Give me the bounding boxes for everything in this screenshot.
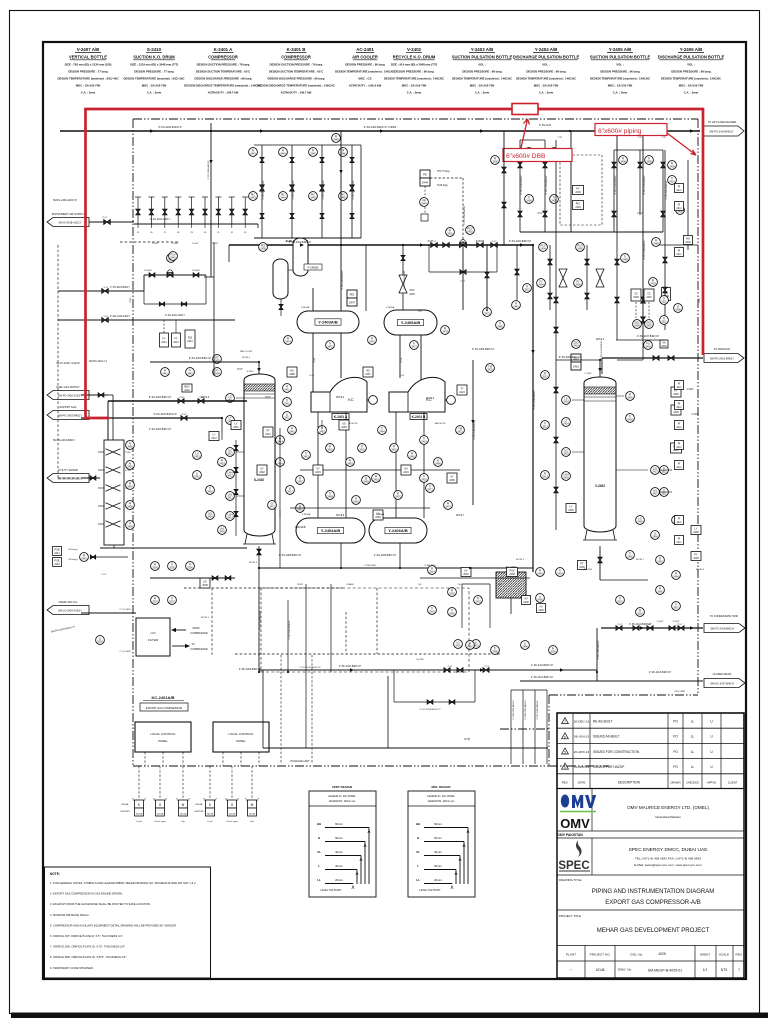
svg-text:2"-DC-2413-B4D1Y-P: 2"-DC-2413-B4D1Y-P (649, 672, 672, 674)
svg-text:PE: PE (423, 173, 427, 177)
svg-text:VENT: VENT (297, 584, 303, 586)
instrument box UY-2485 (447, 473, 457, 483)
svg-text:DESIGN TEMPERATURE (max/min) :: DESIGN TEMPERATURE (max/min) : 149C/0C (516, 77, 576, 81)
svg-text:7. ORIFICE 2ND: ORIFICE PLAT: 7. ORIFICE 2ND: ORIFICE PLATE ID. 4.75",… (50, 945, 126, 949)
svg-text:2478: 2478 (442, 331, 448, 334)
svg-text:2515: 2515 (429, 611, 435, 614)
svg-text:TYP: TYP (662, 137, 667, 139)
svg-text:(TYP): (TYP) (464, 738, 470, 741)
station branch 4 (351, 145, 353, 238)
revision row 6 (557, 742, 744, 744)
svg-text:SIZE : 1219 mm (ID) x 3048 mm: SIZE : 1219 mm (ID) x 3048 mm (T/T) (130, 63, 178, 67)
svg-text:DESIGN SUCTION TEMPERATURE : 6: DESIGN SUCTION TEMPERATURE : 60 C (196, 70, 250, 74)
risers to drain (258, 568, 260, 672)
svg-text:PO: PO (673, 735, 678, 739)
svg-text:2"-FG-2414-A1D1Y: 2"-FG-2414-A1D1Y (150, 218, 170, 221)
svg-text:LL: LL (691, 750, 695, 754)
svg-text:M: M (182, 803, 185, 807)
svg-text:2465: 2465 (409, 456, 415, 459)
instrument TI-2468 (326, 491, 335, 500)
V-2401 lower valve cluster (193, 451, 202, 460)
svg-text:UTILITY WATER: UTILITY WATER (58, 468, 78, 472)
instrument GI-2472 (268, 501, 277, 510)
svg-text:2"-DC-2411-B4D1Y-P: 2"-DC-2411-B4D1Y-P (531, 665, 553, 667)
connector EXPORT GAS (47, 411, 89, 420)
svg-text:2407: 2407 (646, 296, 652, 299)
svg-text:2412: 2412 (227, 475, 233, 478)
svg-text:L: L (417, 864, 419, 868)
svg-text:2429: 2429 (650, 283, 656, 286)
svg-text:MEHAR GAS DEVELOPMENT PROJECT: MEHAR GAS DEVELOPMENT PROJECT (597, 928, 710, 934)
svg-text:VOL :: VOL : (542, 63, 549, 67)
svg-text:20-APR-13: 20-APR-13 (574, 750, 590, 754)
svg-text:2490: 2490 (637, 521, 643, 524)
svg-text:2445: 2445 (310, 153, 316, 156)
svg-text:9. TEMPORARY CONE STRAINER.: 9. TEMPORARY CONE STRAINER. (50, 966, 94, 970)
instrument box right margin y=425 (675, 421, 684, 430)
svg-text:2447: 2447 (349, 301, 356, 305)
instrument box PT-2414 (263, 427, 273, 437)
svg-text:2"-DC-2407-B4D1Y: 2"-DC-2407-B4D1Y (289, 620, 291, 640)
svg-text:2498: 2498 (492, 651, 498, 654)
OMV logo (561, 795, 569, 808)
svg-text:PO: PO (673, 720, 678, 724)
red highlight piping path (86, 109, 704, 418)
transmitter M-2401B (251, 766, 253, 800)
svg-text:2427: 2427 (652, 471, 658, 474)
svg-text:2404: 2404 (661, 345, 667, 348)
svg-text:SM-LO-2424-A1D1Y: SM-LO-2424-A1D1Y (58, 608, 82, 612)
svg-text:Islamabad-Pakistan: Islamabad-Pakistan (655, 815, 681, 819)
svg-text:2438: 2438 (523, 601, 529, 604)
title block frame (557, 713, 744, 978)
main export gas pipe (60, 130, 700, 132)
instrument PI-2491 (672, 516, 681, 525)
svg-text:NOTE 5: NOTE 5 (201, 617, 210, 619)
svg-text:2425: 2425 (563, 477, 569, 480)
instrument PI-2497 (466, 641, 475, 650)
svg-text:3"-PC-2412-B4D1Y: 3"-PC-2412-B4D1Y (598, 640, 600, 660)
svg-text:2469: 2469 (363, 481, 369, 484)
instrument PI-2432 (448, 588, 457, 597)
svg-text:2451: 2451 (233, 426, 239, 429)
svg-text:DESIGN SUCTION PRESSURE : 76 b: DESIGN SUCTION PRESSURE : 76 barg (197, 63, 250, 67)
svg-text:FRESH MO-OIL: FRESH MO-OIL (59, 600, 78, 604)
svg-text:6: 6 (564, 735, 566, 739)
svg-text:8"x6": 8"x6" (179, 397, 184, 399)
instrument PI-2500 (549, 646, 558, 655)
station branch 2 (291, 145, 293, 238)
ZC box pair (631, 289, 641, 301)
svg-text:DESIGN PRESSURE : 96 barg: DESIGN PRESSURE : 96 barg (345, 63, 385, 67)
svg-text:2426: 2426 (627, 419, 633, 422)
OMV company row (557, 830, 744, 832)
instrument TI-2419 (420, 474, 429, 483)
gate valve on cooler outlet x=636 (633, 626, 639, 631)
instrument box right margin y=206 (675, 202, 684, 211)
svg-text:2"-UW-2420-A1D1Y: 2"-UW-2420-A1D1Y (512, 700, 515, 720)
svg-text:6"-PG-2411-B4D1Y: 6"-PG-2411-B4D1Y (546, 175, 548, 195)
svg-text:2444: 2444 (280, 197, 286, 200)
revision row 4 (557, 773, 744, 775)
svg-text:4"-PG-2413-B4D1Y: 4"-PG-2413-B4D1Y (644, 175, 646, 195)
svg-text:2481: 2481 (513, 306, 519, 309)
svg-text:3. EXHAUST FROM THE GAS ENGI: 3. EXHAUST FROM THE GAS ENGINE SHALL BE … (50, 902, 151, 906)
svg-text:2"-UW-2421-A1D1Y: 2"-UW-2421-A1D1Y (524, 700, 527, 720)
svg-text:DESIGN DISCHARGE TEMPERATURE (: DESIGN DISCHARGE TEMPERATURE (max/min) :… (184, 84, 262, 88)
svg-text:CLIENT: CLIENT (728, 781, 738, 785)
dashed air header vertical (57, 245, 59, 478)
svg-text:MOL DESIGN: MOL DESIGN (432, 785, 451, 789)
instrument LG-2490 (636, 516, 645, 525)
svg-text:ISSUED AS-BUILT: ISSUED AS-BUILT (593, 735, 620, 739)
svg-text:SM-PG-2402-B4D1Y: SM-PG-2402-B4D1Y (58, 413, 82, 417)
svg-text:DESIGN TEMPERATURE (max/min) :: DESIGN TEMPERATURE (max/min) : 149C/0C (384, 77, 444, 81)
svg-text:24xx: 24xx (676, 406, 682, 409)
gate valve on cooler outlet x=650 (647, 626, 653, 631)
crank lines (259, 567, 533, 569)
svg-text:30mm: 30mm (335, 864, 343, 868)
svg-text:PDI: PDI (350, 293, 355, 297)
svg-text:2"-DR-2430: 2"-DR-2430 (364, 565, 376, 567)
svg-text:VOL :: VOL : (616, 63, 623, 67)
svg-text:2413: 2413 (227, 517, 233, 520)
svg-text:2464: 2464 (379, 431, 385, 434)
svg-text:24xx: 24xx (676, 189, 682, 192)
V-2402 instruments right (626, 392, 635, 401)
instrument box UX-2416 (401, 465, 411, 475)
svg-text:2407: 2407 (646, 325, 652, 328)
svg-text:SM-PG-2401-B4D1Y: SM-PG-2401-B4D1Y (710, 356, 734, 360)
svg-text:2415: 2415 (359, 449, 365, 452)
junction node (211,131) (210, 130, 212, 132)
svg-text:2401B: 2401B (229, 814, 236, 816)
instrument box right margin y=540 (675, 536, 684, 545)
svg-text:DESIGN DISCHARGE PRESSURE : 96: DESIGN DISCHARGE PRESSURE : 96 barg (195, 77, 252, 81)
svg-text:2405: 2405 (575, 284, 581, 287)
svg-text:TEL (+971-4) 438 0542 FAX: (: TEL (+971-4) 438 0542 FAX: (+971-4) 438 … (635, 857, 701, 861)
svg-text:2436: 2436 (657, 591, 663, 594)
svg-text:SM-FG-2420-A1D1Y: SM-FG-2420-A1D1Y (58, 393, 82, 397)
instrument box UA-2484 (373, 510, 383, 520)
svg-text:2411: 2411 (284, 403, 290, 406)
svg-text:1"x3/4": 1"x3/4" (192, 243, 199, 245)
svg-text:S-2410: S-2410 (147, 47, 162, 52)
manifold tap 2 (98, 469, 104, 471)
svg-text:2511: 2511 (661, 321, 667, 324)
instrument box US-2483 (339, 420, 349, 430)
svg-text:24xx: 24xx (676, 253, 682, 256)
svg-text:DRAIN: DRAIN (347, 583, 354, 586)
svg-text:LEVEL TAP POINT: LEVEL TAP POINT (320, 889, 342, 892)
recycle drum inlet leg (555, 360, 557, 530)
revision table (557, 713, 744, 789)
junction node (259,568) (258, 567, 260, 569)
svg-text:2446: 2446 (333, 139, 339, 142)
transmitter K-2401A (138, 766, 140, 800)
drain bypass loop (394, 701, 475, 703)
svg-text:MIN. FLOW: MIN. FLOW (240, 351, 252, 353)
svg-text:24xx: 24xx (676, 207, 682, 210)
svg-text:2"x1": 2"x1" (484, 666, 489, 668)
svg-text:2480: 2480 (497, 326, 503, 329)
svg-text:2416: 2416 (421, 441, 427, 444)
svg-text:2"x1": 2"x1" (101, 574, 106, 576)
bottom-left oil marker (96, 636, 105, 645)
svg-text:2482: 2482 (259, 471, 265, 474)
manifold valve 1 (137, 197, 139, 224)
svg-text:PO: PO (673, 750, 678, 754)
gate valve on suction header x=446 (443, 243, 449, 248)
instrument XI-2466 (434, 458, 443, 467)
instrument TI-2434 (556, 568, 565, 577)
instrument TI-2480 (496, 321, 505, 330)
svg-text:2441: 2441 (54, 552, 60, 555)
svg-text:DESIGN TEMPERATURE (max/min) :: DESIGN TEMPERATURE (max/min) : 93C/-46C (57, 77, 118, 81)
svg-text:V-2402: V-2402 (407, 47, 421, 52)
svg-text:2479: 2479 (484, 313, 490, 316)
svg-text:NOTE:: NOTE: (50, 872, 60, 876)
svg-text:2"x600#: 2"x600# (192, 270, 201, 272)
svg-text:DESIGN PRESSURE : 96 barg: DESIGN PRESSURE : 96 barg (394, 70, 434, 74)
svg-text:V-2407 A/B: V-2407 A/B (77, 47, 100, 52)
svg-text:Y-2406A/B: Y-2406A/B (388, 528, 408, 533)
svg-text:SM-PG-2431-B4D1Y: SM-PG-2431-B4D1Y (53, 439, 76, 442)
svg-text:2423: 2423 (459, 391, 465, 394)
svg-text:2484: 2484 (375, 516, 381, 519)
junction node (643,131) (642, 130, 644, 132)
svg-text:2453: 2453 (219, 463, 225, 466)
right side extra verticals (555, 140, 557, 360)
svg-text:2459: 2459 (127, 526, 133, 529)
svg-text:PANEL: PANEL (236, 739, 246, 743)
svg-text:LL: LL (317, 878, 321, 882)
svg-text:2440: 2440 (538, 609, 544, 612)
svg-text:PACKAGE UNIT: PACKAGE UNIT (290, 759, 310, 763)
svg-text:2"x1": 2"x1" (537, 213, 543, 215)
svg-text:PO: PO (673, 765, 678, 769)
svg-text:2401B: 2401B (249, 814, 256, 816)
svg-text:2426: 2426 (627, 397, 633, 400)
discharge control cluster (519, 140, 521, 232)
transmitter G-2401B (231, 766, 233, 800)
svg-text:2401A: 2401A (136, 813, 143, 816)
svg-text:SM-HC-2432-Y-1: SM-HC-2432-Y-1 (89, 360, 108, 363)
manifold valve 8 (231, 197, 233, 224)
SPEC company row (557, 874, 744, 876)
svg-text:24xx: 24xx (676, 386, 682, 389)
svg-text:HH-77 barg: HH-77 barg (437, 170, 450, 173)
svg-text:DESIGN PRESSURE : 77 barg: DESIGN PRESSURE : 77 barg (134, 70, 174, 74)
instrument TI-2471 (426, 484, 435, 493)
svg-text:2489: 2489 (622, 259, 628, 262)
svg-text:2"-DC-2408-B4D1Y: 2"-DC-2408-B4D1Y (260, 610, 262, 630)
instrument box right margin y=520 (675, 516, 684, 525)
svg-text:NOTE 9: NOTE 9 (249, 562, 258, 564)
svg-text:MOC : SA-516-70N: MOC : SA-516-70N (402, 84, 427, 88)
svg-text:2418: 2418 (373, 479, 379, 482)
svg-text:2458: 2458 (127, 506, 133, 509)
connector UTILITY WATER (47, 474, 89, 483)
svg-text:2412: 2412 (211, 437, 217, 440)
svg-text:2462: 2462 (319, 431, 325, 434)
revision row 7 (557, 727, 744, 729)
instrument PI-2505 (151, 562, 160, 571)
svg-text:FROM: FROM (192, 627, 199, 630)
right column lines (642, 131, 644, 340)
recycle line cluster (687, 160, 689, 250)
svg-text:Y-2405A/B: Y-2405A/B (401, 320, 421, 325)
svg-text:5. COMPRESSOR AND AUXILIARY: 5. COMPRESSOR AND AUXILIARY EQUIPMENT DE… (50, 923, 177, 927)
svg-text:DESCRIPTION: DESCRIPTION (618, 781, 640, 785)
svg-text:06-JUN-13: 06-JUN-13 (574, 735, 589, 739)
instrument PI-2416 (390, 444, 399, 453)
svg-text:2443: 2443 (184, 389, 190, 392)
svg-text:10148: 10148 (596, 968, 605, 972)
transmitter K-2401B (209, 766, 211, 800)
svg-text:2445: 2445 (310, 197, 316, 200)
svg-text:24xx: 24xx (676, 466, 682, 469)
svg-text:2"x1": 2"x1" (491, 241, 496, 243)
gate valve on suction header x=434 (431, 243, 437, 248)
svg-text:2"x1": 2"x1" (646, 624, 651, 626)
svg-text:2401A: 2401A (180, 813, 187, 816)
svg-text:2"-DC-2410-B4D1Y-P: 2"-DC-2410-B4D1Y-P (299, 667, 321, 669)
svg-text:E-Mail: sales@spec-pro.com, ww: E-Mail: sales@spec-pro.com, www.spec-pro… (634, 863, 702, 867)
svg-text:8"-PG-2401-B4D1Y-P 1"x600#: 8"-PG-2401-B4D1Y-P 1"x600# (364, 126, 397, 129)
svg-text:SKIPPED: SKIPPED (120, 811, 130, 813)
riser x341 (340, 131, 342, 311)
svg-text:DESIGN TEMPERATURE (max/min) :: DESIGN TEMPERATURE (max/min) : 149C/0C (661, 77, 721, 81)
svg-text:VISUAL: VISUAL (195, 803, 204, 806)
svg-text:2512: 2512 (542, 426, 548, 429)
svg-text:24xx: 24xx (676, 541, 682, 544)
spillback control stations (549, 245, 551, 310)
svg-text:LEGEND A1: 30m W/DEL: LEGEND A1: 30m W/DEL (427, 795, 455, 798)
svg-text:60mm: 60mm (335, 822, 343, 826)
svg-text:CAD. No.: CAD. No. (630, 953, 643, 957)
svg-text:S-2410: S-2410 (254, 478, 265, 482)
svg-text:4"-PG-2404-B4D1Y-P: 4"-PG-2404-B4D1Y-P (149, 429, 172, 431)
svg-text:2502: 2502 (637, 613, 643, 616)
utility manifold column (104, 440, 124, 545)
instrument TI-2511 y=300 (660, 296, 669, 305)
notes box (45, 867, 211, 978)
svg-text:C.A. : 3mm: C.A. : 3mm (407, 91, 422, 95)
svg-text:AIR COOLER: AIR COOLER (352, 55, 378, 60)
manifold valve 9 (244, 197, 246, 224)
svg-text:DESIGN SUCTION TEMPERATURE : 6: DESIGN SUCTION TEMPERATURE : 60 C (269, 70, 323, 74)
svg-text:1"x3/4": 1"x3/4" (152, 243, 159, 245)
instrument TI-2498 (491, 646, 500, 655)
manifold tap 3 (98, 487, 104, 489)
junction node (597,672) (596, 671, 598, 673)
svg-text:DRAWING TITLE: DRAWING TITLE (559, 878, 582, 882)
svg-text:TYP: TYP (638, 137, 643, 139)
utility feeder pipe x=511 (510, 690, 512, 764)
svg-text:DESIGN PRESSURE : 96 barg: DESIGN PRESSURE : 96 barg (462, 70, 502, 74)
instrument TI-2437 (672, 602, 681, 611)
svg-text:2507: 2507 (169, 601, 175, 604)
svg-text:2511: 2511 (661, 471, 667, 474)
drain cluster circles (454, 640, 463, 649)
gate valve on drain header x=447 (444, 668, 450, 673)
svg-text:2509: 2509 (492, 161, 498, 164)
svg-text:2463: 2463 (347, 463, 353, 466)
instrument PI-2414 (276, 436, 285, 445)
svg-text:1/1: 1/1 (703, 968, 708, 972)
dashed instrument air (120, 241, 179, 243)
svg-text:SPEC: SPEC (558, 860, 589, 872)
svg-text:2454: 2454 (207, 516, 213, 519)
svg-text:2427: 2427 (652, 493, 658, 496)
svg-text:NOTE 7: NOTE 7 (456, 515, 465, 517)
panel signal wire x=259 (258, 752, 260, 766)
svg-text:Y-2404 A/B: Y-2404 A/B (535, 47, 558, 52)
svg-text:RE AS-BUILT: RE AS-BUILT (593, 720, 612, 724)
package battery limit boundary (133, 118, 698, 120)
svg-text:2430: 2430 (677, 211, 683, 214)
utility feeder pipe x=523 (522, 690, 524, 764)
svg-text:2454: 2454 (219, 531, 225, 534)
svg-text:SUCTION PULSATION BOTTLE: SUCTION PULSATION BOTTLE (452, 55, 513, 60)
svg-text:PANEL: PANEL (158, 739, 168, 743)
air cooler AC-2401 (496, 572, 526, 598)
more verticals bottom (305, 584, 307, 672)
svg-text:5: 5 (564, 751, 566, 755)
svg-text:2"-DC-2410-B4D1Y-P: 2"-DC-2410-B4D1Y-P (339, 666, 362, 668)
svg-text:24xx: 24xx (676, 446, 682, 449)
svg-text:2"-DC-2412-B4D1Y-P: 2"-DC-2412-B4D1Y-P (531, 677, 554, 679)
signal dashes (184, 587, 345, 589)
svg-text:LEGEND B1: 100mm etc: LEGEND B1: 100mm etc (428, 800, 455, 803)
svg-text:Y-2406A: Y-2406A (376, 513, 385, 516)
svg-text:MOC : SA-516-70N: MOC : SA-516-70N (679, 84, 704, 88)
svg-text:DESIGN DISCHARGE PRESSURE : 96: DESIGN DISCHARGE PRESSURE : 96 barg (268, 77, 325, 81)
svg-text:K-2401 B: K-2401 B (287, 47, 306, 52)
pipe 8in suction to V-2401 (108, 400, 247, 402)
svg-text:2461: 2461 (303, 456, 309, 459)
svg-text:TO CONDENSATE TANK: TO CONDENSATE TANK (710, 615, 739, 618)
instrument box right margin y=445 (675, 441, 684, 450)
svg-text:SIZE : 762 mm (ID) x 2134 mm (: SIZE : 762 mm (ID) x 2134 mm (S/S) (65, 63, 112, 67)
svg-text:2443: 2443 (250, 153, 256, 156)
svg-text:ACFM DUTY : +250.9 kW: ACFM DUTY : +250.9 kW (349, 84, 382, 88)
svg-text:2406: 2406 (634, 325, 640, 328)
svg-text:2442: 2442 (54, 563, 60, 566)
svg-text:(60 barg): (60 barg) (69, 558, 78, 561)
svg-text:2"-FG-2410-A1D1Y: 2"-FG-2410-A1D1Y (165, 314, 185, 317)
svg-text:2409: 2409 (669, 166, 675, 169)
svg-text:MOC : SA-516-70N: MOC : SA-516-70N (608, 84, 633, 88)
svg-text:Check agna: Check agna (226, 821, 238, 823)
svg-text:TYP: TYP (418, 311, 423, 313)
svg-text:MOC : SA-516-70N: MOC : SA-516-70N (76, 84, 101, 88)
svg-text:SKIPPED: SKIPPED (194, 811, 204, 813)
recycle KO drum V-2402 (584, 377, 616, 532)
instrument VI-2462 (318, 426, 327, 435)
svg-text:C.A. : 3mm: C.A. : 3mm (539, 91, 554, 95)
svg-text:6"x4": 6"x4" (181, 414, 186, 416)
instrument TI-2414 (276, 458, 285, 467)
svg-text:M: M (251, 803, 254, 807)
svg-text:6"x4": 6"x4" (399, 375, 404, 377)
svg-text:24xx: 24xx (676, 426, 682, 429)
lower drain collection header (263, 747, 548, 749)
svg-text:Y-2406 A/B: Y-2406 A/B (680, 47, 703, 52)
svg-text:1"-LO-2425: 1"-LO-2425 (119, 609, 131, 611)
svg-text:2"-DR-2431: 2"-DR-2431 (424, 565, 436, 567)
